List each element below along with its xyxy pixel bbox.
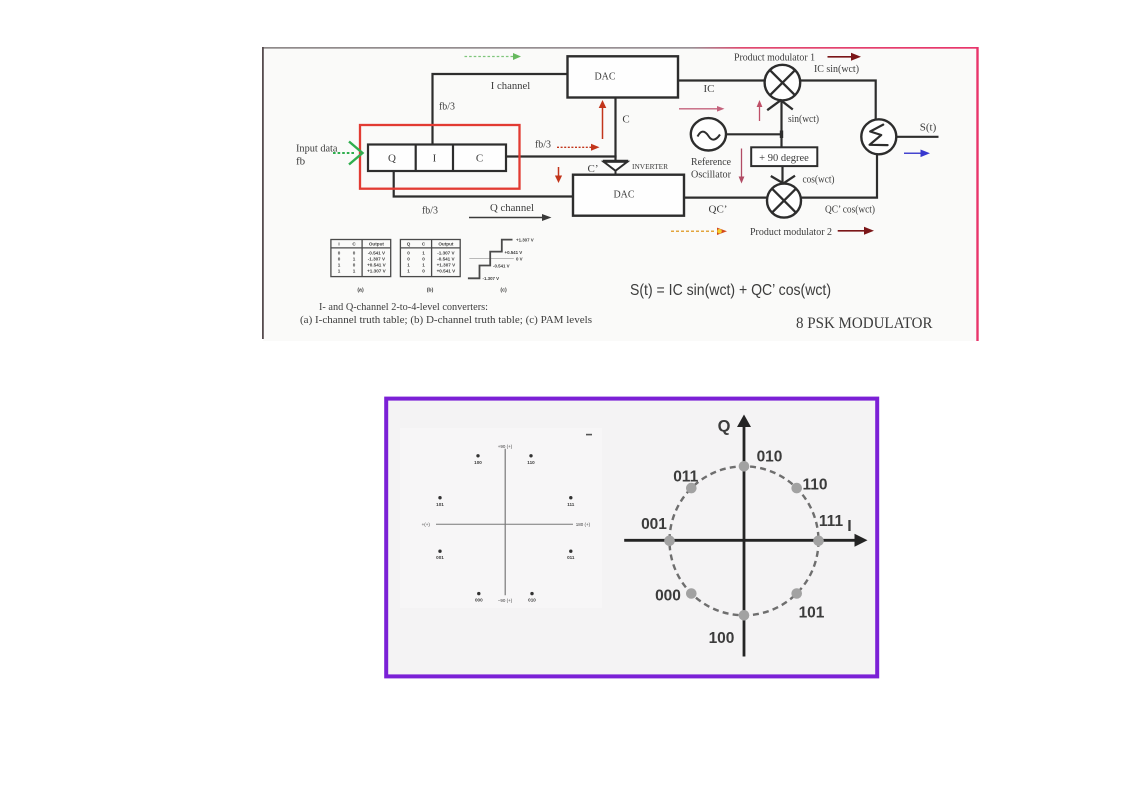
purple frame [386, 399, 877, 677]
svg-text:111: 111 [819, 513, 844, 530]
mini point 101 [438, 496, 441, 499]
svg-text:-1.307 V: -1.307 V [483, 276, 500, 281]
wire Q-channel from register to DAC2 [394, 171, 573, 197]
svg-text:IC sin(wct): IC sin(wct) [814, 63, 859, 75]
DAC U2 (Q channel) [573, 175, 684, 216]
svg-text:0: 0 [407, 257, 410, 262]
svg-text:010: 010 [757, 449, 783, 466]
left scanned panel background [400, 428, 602, 608]
svg-text:1: 1 [338, 269, 341, 274]
pink arrow IC flow [679, 106, 725, 112]
svg-text:C’: C’ [588, 163, 599, 175]
svg-text:0: 0 [407, 251, 410, 256]
svg-text:DAC: DAC [614, 189, 635, 201]
svg-text:111: 111 [567, 502, 575, 507]
constellation labels [641, 418, 852, 648]
svg-text:011: 011 [567, 555, 575, 560]
svg-text:(a) I-channel truth table;: (a) I-channel truth table; (b) D-channel… [300, 314, 592, 326]
svg-text:-0.541 V: -0.541 V [368, 251, 386, 256]
svg-text:+1.307 V: +1.307 V [437, 263, 456, 268]
orange dashed arrow QC' flow [671, 228, 727, 235]
green arrow top [465, 53, 522, 60]
dashed circle [670, 466, 819, 615]
svg-text:010: 010 [528, 598, 536, 603]
mini point 100 [436, 454, 575, 602]
svg-text:Product modulator 1: Product modulator 1 [734, 52, 815, 64]
svg-text:Input data: Input data [296, 143, 338, 155]
svg-text:fb/3: fb/3 [535, 139, 551, 151]
svg-text:I: I [338, 242, 339, 247]
svg-text:I: I [433, 153, 437, 165]
svg-text:100: 100 [709, 630, 735, 647]
inverter U3 [603, 161, 628, 171]
svg-text:1: 1 [338, 263, 341, 268]
svg-text:(b): (b) [427, 288, 434, 294]
svg-text:1: 1 [353, 269, 356, 274]
wire oscillator to sin node [726, 133, 782, 135]
svg-text:Oscillator: Oscillator [691, 169, 731, 181]
wire C from register to junction [506, 155, 617, 157]
blue arrow S(t) output [904, 150, 930, 158]
wire sin(wct) vertical [780, 100, 782, 148]
+90 degree phase shift box [751, 147, 817, 166]
point 100 [739, 610, 750, 621]
svg-text:1: 1 [407, 263, 410, 268]
point 111 [813, 536, 824, 547]
svg-text:1: 1 [353, 257, 356, 262]
mini constellation vertical axis [504, 449, 506, 596]
svg-text:0: 0 [338, 251, 341, 256]
svg-text:-1.307 V: -1.307 V [437, 251, 455, 256]
bit splitter red box [360, 125, 520, 189]
svg-text:001: 001 [641, 516, 667, 533]
frame left border [262, 47, 264, 339]
truth table (a) I-channel [331, 240, 391, 277]
svg-text:QC’ cos(wct): QC’ cos(wct) [825, 204, 875, 216]
svg-text:C: C [476, 153, 483, 165]
product modulator 2 mixer [767, 176, 801, 218]
truth table (b) Q-channel [400, 240, 460, 277]
wire QC' from DAC2 to mixer2 [684, 197, 768, 199]
svg-text:8 PSK MODULATOR: 8 PSK MODULATOR [796, 315, 933, 332]
svg-text:0: 0 [353, 251, 356, 256]
svg-text:QC’: QC’ [709, 204, 728, 216]
point 011 [686, 483, 697, 494]
svg-text:-0.541 V: -0.541 V [437, 257, 455, 262]
svg-text:+(+): +(+) [422, 522, 431, 527]
svg-text:180 (+): 180 (+) [576, 522, 591, 527]
summer U4 [861, 119, 896, 154]
svg-text:fb/3: fb/3 [422, 205, 438, 217]
svg-text:101: 101 [436, 502, 444, 507]
Q axis [737, 415, 751, 657]
svg-text:000: 000 [655, 588, 681, 605]
svg-text:+0.541 V: +0.541 V [367, 263, 386, 268]
dark red arrow product modulator 2 [838, 227, 874, 235]
svg-text:0: 0 [422, 257, 425, 262]
svg-text:0: 0 [338, 257, 341, 262]
PAM levels staircase (c) [468, 238, 534, 294]
svg-text:0 V: 0 V [516, 257, 523, 262]
mini point 111 [569, 496, 572, 499]
svg-text:100: 100 [474, 460, 482, 465]
svg-text:Product modulator 2: Product modulator 2 [750, 226, 832, 238]
product modulator 1 mixer [765, 65, 801, 110]
wire C vertical DAC1-bottom to inverter [614, 98, 616, 162]
wire mixer2 to summer [801, 154, 877, 198]
svg-text:cos(wct): cos(wct) [803, 174, 835, 186]
wire inverter to DAC2 [615, 170, 617, 176]
svg-text:+ 90 degree: + 90 degree [759, 153, 809, 164]
svg-text:(c): (c) [500, 288, 507, 294]
svg-text:1: 1 [422, 251, 425, 256]
frame top border [262, 47, 978, 49]
wire IC from DAC1 to mixer1 [678, 79, 765, 81]
wire I-channel from register to DAC1 [433, 74, 568, 145]
wire cos(wct) from +90 box to mixer2 [781, 166, 783, 184]
point 101 [791, 588, 802, 599]
mini point 010 [530, 592, 533, 595]
svg-text:+0.541 V: +0.541 V [505, 250, 523, 255]
point 001 [664, 536, 675, 547]
junction tick sin node [780, 131, 783, 139]
svg-text:IC: IC [704, 83, 715, 95]
svg-text:I channel: I channel [491, 80, 531, 92]
mini point 000 [477, 592, 480, 595]
svg-text:Output: Output [438, 242, 454, 247]
pink arrow down to mixer2 [739, 149, 745, 184]
svg-text:-0.541 V: -0.541 V [493, 264, 510, 269]
shift register Q I C [368, 145, 506, 172]
slide background panel [263, 47, 977, 341]
mini point 110 [529, 454, 532, 457]
svg-text:Q: Q [388, 153, 396, 165]
wire mixer1 to summer [800, 81, 876, 121]
svg-text:+1.307 V: +1.307 V [367, 269, 386, 274]
green input data arrow [333, 142, 363, 165]
mini constellation horizontal axis [436, 523, 573, 525]
mini point 011 [569, 550, 572, 553]
point 110 [791, 483, 802, 494]
svg-text:110: 110 [802, 477, 827, 494]
point 010 [739, 461, 750, 472]
mini point 001 [438, 550, 441, 553]
svg-text:110: 110 [527, 460, 535, 465]
constellation points [664, 461, 824, 621]
svg-text:0: 0 [422, 269, 425, 274]
dark red arrow product modulator 1 [828, 53, 862, 61]
svg-text:C: C [622, 114, 629, 126]
svg-text:1: 1 [422, 263, 425, 268]
svg-text:+0.541 V: +0.541 V [437, 269, 456, 274]
svg-text:+1.307 V: +1.307 V [516, 238, 534, 243]
svg-text:S(t) = IC sin(wct) + QC’ cos(w: S(t) = IC sin(wct) + QC’ cos(wct) [630, 282, 831, 299]
svg-text:sin(wct): sin(wct) [788, 113, 819, 125]
red dashed fb/3 arrow [557, 144, 600, 151]
svg-text:011: 011 [673, 469, 698, 486]
svg-text:-1.307 V: -1.307 V [368, 257, 386, 262]
svg-text:+90 (+): +90 (+) [498, 444, 513, 449]
reference oscillator G1 [691, 118, 726, 150]
frame right border [976, 47, 978, 341]
black arrow Q channel [469, 214, 552, 221]
svg-text:I: I [847, 518, 851, 535]
svg-text:Q: Q [407, 242, 411, 247]
point 000 [686, 588, 697, 599]
svg-text:Q channel: Q channel [490, 202, 534, 214]
svg-text:DAC: DAC [595, 71, 616, 83]
svg-text:INVERTER: INVERTER [632, 163, 668, 171]
DAC U1 (I channel) [568, 56, 679, 97]
I axis [624, 534, 867, 547]
svg-text:Q: Q [718, 418, 731, 436]
red arrow down to DAC2 [555, 167, 562, 183]
svg-text:−90 (+): −90 (+) [498, 598, 513, 603]
svg-text:0: 0 [353, 263, 356, 268]
red arrow up into DAC1 [599, 100, 607, 139]
mini dash mark top-right [586, 434, 592, 436]
svg-text:1: 1 [407, 269, 410, 274]
svg-text:fb/3: fb/3 [439, 101, 455, 113]
svg-text:S(t): S(t) [920, 122, 937, 134]
svg-text:000: 000 [475, 598, 483, 603]
wire summer output S(t) [896, 136, 938, 138]
svg-text:001: 001 [436, 555, 444, 560]
svg-text:fb: fb [296, 156, 306, 168]
svg-text:(a): (a) [357, 288, 364, 294]
svg-text:I- and Q-channel 2-to-4-lev: I- and Q-channel 2-to-4-level converters… [319, 301, 488, 313]
svg-text:101: 101 [799, 605, 825, 622]
pink arrow up to mixer1 [757, 100, 763, 121]
svg-text:Output: Output [369, 242, 385, 247]
svg-text:Reference: Reference [691, 156, 731, 168]
